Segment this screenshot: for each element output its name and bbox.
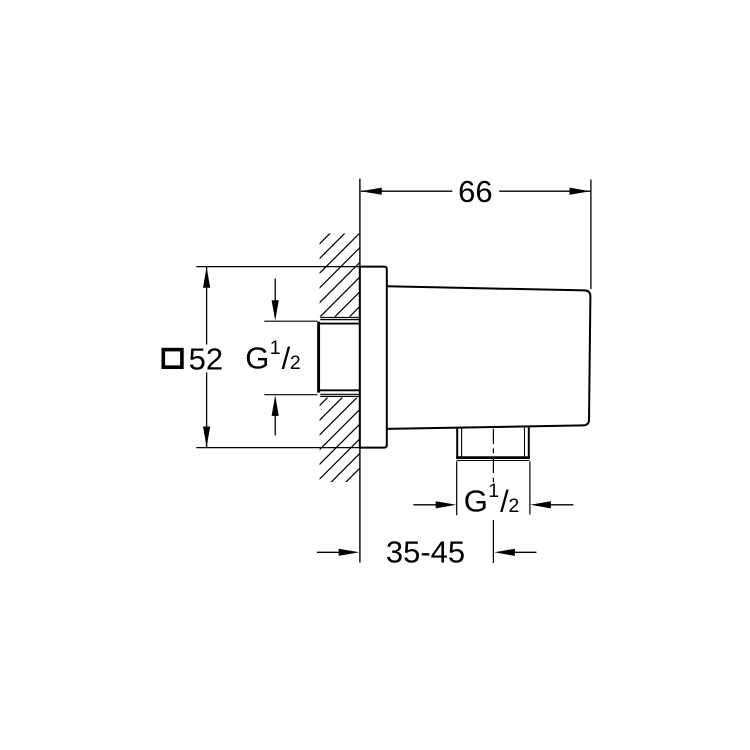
dim 52: dimension line xyxy=(206,267,208,447)
socket thread outer line pair (top) xyxy=(320,318,360,320)
dim 52: square section symbol xyxy=(163,350,182,368)
dim 52: extension lines xyxy=(196,267,359,448)
wall hatching xyxy=(77,230,612,486)
wall surface line (also 66-dim left extension line) xyxy=(359,179,361,563)
outlet centerline (dash-dot) xyxy=(492,429,494,563)
dim 66: right arrowhead xyxy=(570,188,591,195)
body (tapered union housing) xyxy=(387,286,591,429)
outlet extension lines (below nipple) xyxy=(457,461,530,515)
svg-text:2: 2 xyxy=(508,495,519,517)
svg-text:G: G xyxy=(464,484,488,519)
svg-text:52: 52 xyxy=(189,342,223,377)
socket bore line (top) xyxy=(318,323,360,325)
dim 66: left arrowhead xyxy=(361,188,382,195)
dim G1/2 inlet: lower arrow (pointing up) xyxy=(272,395,279,435)
socket cutout (clears wall hatching) xyxy=(317,317,360,398)
svg-text:66: 66 xyxy=(458,174,492,209)
dim G1/2 inlet: label G 1/2 xyxy=(245,337,301,376)
dim 35-45: left arrow (pointing right at wall) xyxy=(317,549,360,556)
dim 66: right extension line xyxy=(590,180,592,290)
dim 35-45: right arrow (pointing left at centerline) xyxy=(494,549,536,556)
svg-text:2: 2 xyxy=(290,352,301,374)
dim G1/2 inlet: extension lines xyxy=(264,321,317,395)
dim G1/2 inlet: upper arrow (pointing down) xyxy=(272,279,279,321)
socket thread outer line pair (bottom) xyxy=(320,394,360,396)
dim G1/2 outlet: right arrow (pointing left) xyxy=(530,501,573,508)
svg-text:1: 1 xyxy=(270,337,281,359)
svg-text:G: G xyxy=(245,341,269,376)
dim G1/2 outlet: label G 1/2 xyxy=(464,480,520,518)
socket left end face (thick) xyxy=(317,322,320,393)
svg-text:35-45: 35-45 xyxy=(386,535,465,570)
dim G1/2 outlet: left arrow (pointing right) xyxy=(413,501,456,508)
outlet nipple G1/2 (bottom) xyxy=(456,427,530,460)
dim 66: dimension line xyxy=(361,190,590,192)
svg-text:1: 1 xyxy=(488,480,499,502)
socket bore line (bottom) xyxy=(318,389,360,391)
flange (wall plate) xyxy=(360,267,387,448)
dim 52: top arrowhead xyxy=(203,267,210,288)
dim 52: bottom arrowhead xyxy=(203,427,210,448)
